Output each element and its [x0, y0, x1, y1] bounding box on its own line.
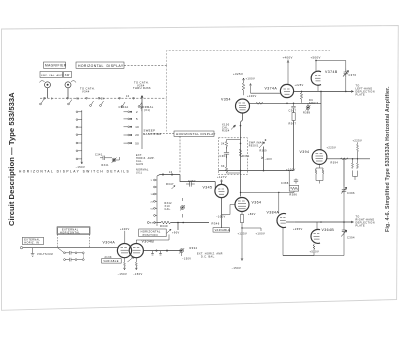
- svg-text:+100V: +100V: [246, 77, 256, 81]
- resistor R361: [239, 149, 250, 158]
- svg-text:SWP. CAL. ADPT.: SWP. CAL. ADPT.: [41, 74, 65, 77]
- magnifier contact column: [141, 104, 143, 150]
- svg-text:VARIABLE: VARIABLE: [103, 260, 118, 263]
- pentode V364: [235, 198, 261, 212]
- label +325V: [233, 72, 245, 80]
- svg-text:+265V: +265V: [293, 227, 303, 231]
- svg-text:HORIZONTAL DISPLAY SWITCH DETA: HORIZONTAL DISPLAY SWITCH DETAILS: [19, 170, 130, 174]
- display switch position labels: [150, 180, 156, 224]
- label +265V: [283, 227, 303, 231]
- half tube V374B: [311, 70, 338, 85]
- input connector: [20, 247, 22, 249]
- svg-text:HORIZONTAL DISPLAY: HORIZONTAL DISPLAY: [78, 64, 124, 68]
- half tube V364B: [311, 228, 334, 243]
- wire V384A plate to defl line: [286, 221, 295, 223]
- wire C376 down to plate line: [345, 77, 347, 91]
- wire dashed from box to magnifier column: [148, 133, 174, 135]
- left wafer column lower: [81, 110, 83, 164]
- svg-text:R334: R334: [190, 246, 198, 250]
- resistor on output line: [341, 158, 349, 160]
- wire column to pot: [108, 157, 120, 160]
- wire arrow up to cath: [141, 96, 143, 109]
- svg-text:V374A: V374A: [265, 87, 278, 91]
- wire V364B plate up to defl line: [316, 222, 318, 230]
- svg-text:CAL.: CAL.: [165, 208, 172, 211]
- node output junction: [286, 103, 288, 105]
- box EXTERNAL HORIZONTAL: [57, 227, 90, 235]
- label +127V: [217, 175, 227, 184]
- label EXT. HORIZ. AMP. CAL.: [136, 154, 155, 166]
- svg-text:VOLTS/CM: VOLTS/CM: [37, 253, 53, 256]
- wire V394 cathode resistors: [315, 164, 324, 183]
- pot between cathodes: [128, 257, 134, 262]
- node grid junctions: [240, 192, 280, 193]
- pot SWP MAG REGIS R369: [249, 139, 267, 152]
- svg-text:THRU R266: THRU R266: [133, 86, 151, 90]
- node junction ext2: [182, 222, 184, 224]
- box EXTERNAL HORIZ IN: [22, 237, 43, 244]
- wire V374B cathode down: [317, 86, 319, 92]
- svg-text:R341: R341: [102, 164, 110, 167]
- label +127V bus feed: [0, 0, 1, 1]
- svg-text:+225V: +225V: [295, 84, 304, 87]
- resistor R386 boxed: [289, 186, 299, 197]
- svg-text:V345: V345: [203, 186, 213, 190]
- svg-text:50: 50: [151, 208, 155, 210]
- svg-text:SHIFT: SHIFT: [309, 102, 318, 105]
- ground input: [31, 248, 35, 257]
- wire V304B plate up: [136, 235, 169, 244]
- wire V364 grid from left: [222, 205, 236, 215]
- svg-text:R346: R346: [212, 221, 220, 225]
- svg-text:+400V: +400V: [283, 55, 293, 59]
- label +500V: [310, 249, 320, 253]
- wire plate vertical: [320, 91, 322, 149]
- svg-text:C396: C396: [347, 191, 355, 195]
- attenuator row 2: [64, 254, 85, 262]
- svg-text:V384A: V384A: [267, 210, 280, 214]
- contact circles on wafer line: [44, 97, 135, 99]
- box HORIZONTAL DISPLAY (center): [174, 131, 216, 136]
- box SW: [64, 72, 72, 78]
- rotary switch shaft 2: [65, 81, 76, 88]
- svg-text:R394: R394: [331, 161, 339, 164]
- resistor on V354 output line: [256, 102, 263, 104]
- arrow right defl: [351, 221, 354, 223]
- wire main wafer dashed line: [40, 97, 167, 99]
- magnifier position labels 2 5 10 20 50: [135, 110, 139, 145]
- label +100V bus: [286, 167, 296, 171]
- label -150V column: [76, 162, 86, 169]
- wire V364B cathode resistor: [313, 244, 315, 251]
- svg-text:(X1): (X1): [144, 108, 151, 112]
- svg-text:+500V: +500V: [311, 56, 321, 60]
- svg-text:VARIABLE: VARIABLE: [215, 228, 231, 232]
- svg-text:−100V: −100V: [216, 214, 226, 218]
- variable capacitor C376: [343, 69, 357, 78]
- label TO LEFT-HAND DEFLECTION PLATE: [356, 85, 375, 97]
- label NORMAL (X1): [140, 105, 154, 112]
- wire V345 plate up: [221, 181, 223, 184]
- wire cathodes down: [124, 258, 138, 270]
- label -150V pot: [182, 253, 192, 261]
- display switch contact column: [156, 176, 158, 226]
- contacts on row: [162, 174, 173, 176]
- pentode V354: [221, 97, 250, 113]
- svg-text:2: 2: [136, 110, 138, 114]
- node bus dot: [263, 170, 265, 172]
- svg-text:10: 10: [169, 171, 173, 174]
- svg-text:1: 1: [151, 180, 153, 182]
- triode V345: [203, 184, 229, 197]
- resistor ladder lower: [221, 165, 228, 173]
- svg-text:V374B: V374B: [325, 70, 338, 74]
- svg-text:C357: C357: [188, 179, 196, 183]
- svg-text:C367: C367: [289, 108, 297, 112]
- right margin caption: [385, 86, 391, 232]
- svg-text:+90V: +90V: [172, 232, 180, 235]
- svg-text:4B: 4B: [76, 97, 80, 100]
- wire dashed drops from box: [58, 234, 90, 247]
- label +400V: [283, 55, 293, 84]
- wire down long branch: [293, 111, 295, 171]
- svg-text:−40V: −40V: [265, 157, 273, 161]
- svg-text:V364B: V364B: [322, 228, 335, 232]
- label EXT HORIZ AMP DC BAL: [197, 252, 224, 258]
- wire bus y170.5: [218, 170, 293, 172]
- node +500V junction: [315, 60, 317, 62]
- triode V374A: [265, 84, 294, 97]
- svg-text:10: 10: [151, 194, 155, 196]
- node C396 top: [343, 158, 345, 160]
- svg-text:10: 10: [135, 125, 139, 129]
- wire right branch pot: [263, 147, 265, 171]
- svg-text:5N: 5N: [101, 97, 105, 100]
- svg-text:EXT.: EXT.: [150, 222, 156, 224]
- rotary switch shaft 1: [40, 81, 51, 88]
- label NORMAL (X1) lower: [136, 169, 149, 175]
- wire dashed link to enclosure: [124, 64, 167, 66]
- box MAGNIFIER: [44, 62, 67, 68]
- wire input line: [23, 247, 118, 249]
- svg-text:+127V: +127V: [217, 175, 227, 179]
- twin triode V304B: [129, 240, 154, 258]
- wire C396 branch down: [343, 159, 345, 187]
- capacitor C357: [186, 179, 196, 187]
- svg-text:−150V: −150V: [76, 165, 86, 169]
- resistors right rail: [352, 159, 359, 180]
- wire +500V rail to C376: [316, 61, 346, 69]
- wire junction down: [177, 223, 179, 231]
- capacitor C367: [289, 103, 297, 112]
- svg-text:GAIN: GAIN: [136, 163, 144, 166]
- node junction ext: [177, 222, 179, 224]
- svg-text:C344A: C344A: [119, 105, 129, 109]
- svg-text:R347: R347: [166, 182, 174, 186]
- svg-text:D.C. BAL.: D.C. BAL.: [201, 256, 215, 259]
- arrow to left deflection plate: [351, 90, 354, 92]
- label +225V: [327, 145, 337, 149]
- svg-text:(X1): (X1): [136, 172, 142, 175]
- resistor R340: [160, 221, 171, 228]
- svg-text:50: 50: [135, 141, 139, 145]
- wire pot links: [302, 102, 309, 111]
- wire C396 to defl line: [343, 194, 345, 222]
- svg-text:+100V: +100V: [120, 227, 130, 231]
- svg-text:20: 20: [151, 201, 155, 203]
- wire V364 cathode down: [241, 212, 243, 236]
- node defl junctions: [320, 221, 345, 223]
- label TO RIGHT-HAND DEFLECTION PLATE: [356, 215, 375, 227]
- svg-text:+100V: +100V: [256, 231, 266, 235]
- twin triode V304A: [103, 241, 132, 258]
- pot horizontal position: [167, 229, 171, 233]
- variable capacitor C396: [341, 187, 355, 195]
- svg-text:+225V: +225V: [353, 138, 363, 142]
- label +125V +100V: [238, 231, 266, 235]
- label TO CATH. V344: [80, 87, 95, 94]
- wire switch row to V345 grid: [157, 175, 215, 190]
- pentode V394: [300, 150, 327, 165]
- capacitor C361: [220, 149, 230, 159]
- pot R341: [102, 158, 117, 167]
- label +100V at grid line: [247, 94, 257, 98]
- box VARIABLE (input): [102, 259, 122, 264]
- svg-text:V304A: V304A: [103, 241, 116, 245]
- svg-text:V394: V394: [300, 150, 310, 154]
- svg-text:+500V: +500V: [310, 249, 320, 253]
- svg-text:C341: C341: [95, 154, 103, 157]
- wire V364 down arrow: [241, 236, 243, 261]
- svg-text:3K: 3K: [221, 142, 225, 145]
- box SWP CAL ADAPTER: [40, 72, 65, 78]
- svg-text:POSITION: POSITION: [143, 234, 158, 237]
- wire V394 out right: [327, 158, 370, 160]
- wire shaft2 to wafer line: [67, 88, 69, 98]
- svg-text:C361: C361: [220, 155, 228, 158]
- wire +100V branch to V374A grid: [251, 92, 282, 94]
- svg-text:C394: C394: [347, 236, 355, 240]
- box VARIABLE: [213, 228, 230, 233]
- wire V374A out right: [294, 90, 354, 92]
- wire V345 cathode down: [221, 198, 223, 228]
- svg-text:MAGNIFIER: MAGNIFIER: [143, 132, 162, 136]
- svg-text:−150V: −150V: [182, 258, 191, 261]
- pot R342 X10 CAL: [165, 202, 186, 211]
- box HORIZONTAL DISPLAY: [76, 62, 124, 68]
- pot R347: [166, 182, 175, 189]
- wire C394 bottom rail: [283, 231, 344, 256]
- svg-text:+80V: +80V: [248, 212, 256, 216]
- pot R334: [179, 246, 198, 254]
- node V394 out to rail: [352, 158, 354, 160]
- node C376 junction: [345, 91, 347, 93]
- label +225V right rail: [353, 138, 363, 159]
- node right rail: [357, 158, 358, 159]
- svg-text:C376: C376: [349, 73, 357, 77]
- wafer position labels: [51, 95, 130, 100]
- label +100V above V304A: [120, 227, 130, 243]
- divider stubs: [151, 250, 168, 255]
- svg-text:+325V: +325V: [233, 72, 243, 76]
- resistor cathode V374: [300, 91, 302, 102]
- svg-text:PLATE: PLATE: [356, 94, 366, 97]
- switch throw stubs below wafer line: [40, 99, 142, 107]
- svg-text:−150V: −150V: [118, 272, 128, 276]
- svg-text:9: 9: [51, 97, 53, 100]
- svg-text:HORIZONTAL DISPLAY: HORIZONTAL DISPLAY: [176, 132, 216, 136]
- node resistor top: [301, 91, 303, 93]
- svg-text:R361: R361: [242, 155, 250, 158]
- wire shaft1 to wafer line: [47, 88, 49, 98]
- half tube V384A: [267, 210, 287, 227]
- wire grid bus to V384A: [241, 191, 295, 213]
- wire V354 output right: [250, 102, 322, 104]
- svg-text:V354: V354: [221, 97, 231, 101]
- label DC SHIFT: [309, 99, 318, 105]
- wire R340 to junction: [171, 222, 210, 224]
- variable capacitor C394: [341, 222, 355, 240]
- svg-text:−150V: −150V: [232, 266, 242, 270]
- svg-text:+225V: +225V: [327, 145, 337, 149]
- wire dashed enclosure corner: [167, 51, 331, 66]
- node ext connector: [147, 222, 149, 224]
- svg-text:+100V: +100V: [286, 167, 296, 171]
- wire right defl line: [295, 221, 354, 223]
- capacitor C341: [95, 154, 108, 160]
- dashed box gain network: [218, 138, 247, 175]
- label +100V feed: [246, 77, 256, 94]
- svg-text:R386: R386: [289, 192, 297, 196]
- svg-text:R368: R368: [303, 112, 311, 115]
- svg-text:HORIZ. IN: HORIZ. IN: [24, 242, 39, 245]
- svg-text:MAGNIFIER: MAGNIFIER: [45, 64, 67, 68]
- svg-text:C388: C388: [281, 182, 289, 185]
- wire V304B out right: [143, 250, 181, 252]
- svg-text:V344: V344: [82, 89, 90, 93]
- svg-text:20: 20: [135, 133, 139, 137]
- left margin title: [7, 92, 16, 226]
- wire EXT row to R340: [157, 222, 161, 224]
- resistor plate load V354: [242, 78, 245, 95]
- svg-text:−150V: −150V: [133, 272, 143, 276]
- pot R368: [303, 105, 311, 115]
- capacitor C388: [281, 179, 298, 185]
- resistor R367 boxed: [289, 113, 297, 126]
- box HORIZONTAL POSITION: [139, 229, 167, 237]
- svg-text:HORIZONTAL: HORIZONTAL: [60, 231, 80, 234]
- node out junction: [320, 91, 322, 93]
- svg-text:SW: SW: [65, 74, 70, 77]
- wire V364B to bottom rail: [283, 252, 314, 256]
- svg-text:REGIS.: REGIS.: [249, 144, 260, 147]
- wire V354 cathode spine: [241, 113, 243, 197]
- svg-text:5: 5: [136, 117, 138, 121]
- svg-text:R354: R354: [222, 129, 230, 132]
- svg-text:R367: R367: [289, 121, 297, 125]
- wire +100V to R386: [288, 171, 290, 186]
- svg-text:R340: R340: [160, 224, 168, 228]
- resistor ladder upper: [221, 140, 228, 149]
- label TO CATH. V264 THRU R266: [133, 81, 151, 91]
- svg-text:PLATE: PLATE: [356, 224, 366, 227]
- node cathode junction: [241, 227, 242, 228]
- attenuator row 1: [58, 248, 85, 255]
- label SWEEP MAGNIFIER: [143, 129, 162, 136]
- svg-text:10: 10: [126, 95, 130, 98]
- wire dashed enclosure vertical: [166, 65, 168, 131]
- svg-text:+125V: +125V: [238, 231, 248, 235]
- node C367 top: [293, 103, 295, 105]
- label +500V: [311, 56, 321, 72]
- resistor V364 cathode: [240, 215, 243, 223]
- node spine dots: [240, 125, 242, 172]
- svg-text:3K: 3K: [221, 165, 225, 168]
- label -40V: [261, 157, 272, 161]
- wire ladder joins: [227, 140, 241, 174]
- svg-text:+100V: +100V: [247, 94, 257, 98]
- pot X100 CAL R354: [222, 123, 236, 132]
- wire dashed from box down to display switch: [179, 136, 181, 173]
- svg-text:V364: V364: [252, 200, 262, 204]
- wire R342 branch: [182, 198, 184, 218]
